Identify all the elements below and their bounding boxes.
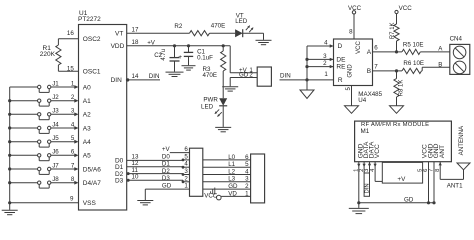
svg-text:5: 5 bbox=[184, 153, 188, 160]
svg-text:L3: L3 bbox=[228, 176, 235, 183]
svg-text:R6 10E: R6 10E bbox=[403, 60, 424, 67]
svg-text:1: 1 bbox=[184, 183, 188, 190]
svg-text:7: 7 bbox=[71, 162, 75, 169]
svg-text:10: 10 bbox=[132, 174, 139, 181]
svg-text:A: A bbox=[367, 49, 372, 56]
svg-text:6: 6 bbox=[184, 146, 188, 153]
svg-text:B: B bbox=[438, 62, 442, 69]
svg-text:D4/A7: D4/A7 bbox=[83, 180, 101, 187]
svg-text:2: 2 bbox=[249, 72, 253, 79]
svg-text:DIN: DIN bbox=[149, 73, 160, 80]
svg-text:J1: J1 bbox=[52, 80, 59, 87]
svg-text:VCC: VCC bbox=[356, 41, 362, 54]
svg-text:A4: A4 bbox=[83, 139, 91, 146]
svg-text:15: 15 bbox=[67, 65, 74, 72]
svg-text:6: 6 bbox=[245, 154, 249, 161]
svg-text:5: 5 bbox=[71, 135, 75, 142]
svg-text:+V: +V bbox=[147, 39, 156, 46]
svg-text:A2: A2 bbox=[83, 112, 91, 119]
svg-text:4: 4 bbox=[324, 40, 328, 47]
svg-text:GD: GD bbox=[239, 72, 249, 79]
svg-text:ANT1: ANT1 bbox=[447, 182, 463, 189]
svg-text:PT2272: PT2272 bbox=[78, 16, 101, 23]
svg-text:J2: J2 bbox=[52, 94, 59, 101]
svg-text:+V: +V bbox=[397, 176, 406, 183]
svg-text:LED: LED bbox=[235, 18, 248, 25]
svg-text:RF AM/FM Rx MODULE: RF AM/FM Rx MODULE bbox=[361, 122, 429, 128]
svg-text:L1: L1 bbox=[228, 161, 235, 168]
svg-text:2: 2 bbox=[71, 94, 75, 101]
svg-text:8: 8 bbox=[71, 176, 75, 183]
svg-text:3: 3 bbox=[245, 176, 249, 183]
svg-text:+: + bbox=[178, 54, 182, 61]
svg-text:D1: D1 bbox=[162, 161, 170, 168]
svg-text:2: 2 bbox=[245, 183, 249, 190]
svg-text:D: D bbox=[338, 43, 343, 50]
svg-text:LED: LED bbox=[201, 103, 214, 110]
svg-text:J5: J5 bbox=[52, 135, 59, 142]
svg-text:R2: R2 bbox=[174, 23, 182, 30]
svg-text:5: 5 bbox=[245, 161, 249, 168]
svg-text:B: B bbox=[367, 68, 371, 75]
svg-text:RE: RE bbox=[336, 64, 346, 71]
svg-text:A5: A5 bbox=[83, 153, 91, 160]
svg-text:L0: L0 bbox=[228, 154, 235, 161]
svg-text:DIN: DIN bbox=[364, 183, 370, 193]
svg-text:R7 1K: R7 1K bbox=[390, 22, 396, 39]
svg-text:J7: J7 bbox=[52, 162, 59, 169]
svg-text:L2: L2 bbox=[228, 168, 235, 175]
svg-text:D2: D2 bbox=[162, 168, 170, 175]
svg-text:16: 16 bbox=[67, 30, 74, 37]
svg-text:R: R bbox=[338, 77, 343, 84]
svg-text:6: 6 bbox=[71, 149, 75, 156]
svg-text:1: 1 bbox=[71, 80, 75, 87]
svg-text:M1: M1 bbox=[361, 128, 370, 135]
svg-text:A1: A1 bbox=[83, 98, 91, 105]
svg-text:3: 3 bbox=[184, 168, 188, 175]
svg-text:D3: D3 bbox=[115, 178, 124, 185]
svg-text:GD: GD bbox=[404, 197, 414, 204]
svg-text:470E: 470E bbox=[211, 23, 225, 30]
svg-text:470E: 470E bbox=[203, 72, 217, 79]
svg-text:4.7u: 4.7u bbox=[161, 49, 167, 61]
svg-text:J3: J3 bbox=[52, 108, 59, 115]
svg-text:OSC2: OSC2 bbox=[83, 36, 101, 43]
svg-text:4: 4 bbox=[71, 121, 75, 128]
svg-text:VCC: VCC bbox=[204, 193, 218, 200]
svg-text:VD: VD bbox=[228, 190, 237, 197]
svg-text:1: 1 bbox=[324, 71, 328, 78]
svg-text:18: 18 bbox=[132, 39, 139, 46]
svg-text:+V: +V bbox=[162, 146, 171, 153]
svg-text:CN4: CN4 bbox=[450, 35, 463, 42]
svg-text:D3: D3 bbox=[162, 175, 170, 182]
svg-text:OSC1: OSC1 bbox=[83, 69, 101, 76]
svg-text:9: 9 bbox=[70, 196, 74, 203]
svg-text:J4: J4 bbox=[52, 121, 59, 128]
svg-text:ANT: ANT bbox=[439, 145, 446, 158]
svg-text:2: 2 bbox=[184, 175, 188, 182]
svg-text:220K: 220K bbox=[40, 51, 56, 58]
svg-text:VCC: VCC bbox=[348, 5, 362, 12]
svg-text:U4: U4 bbox=[358, 97, 366, 104]
svg-text:3: 3 bbox=[71, 108, 75, 115]
svg-text:17: 17 bbox=[132, 26, 139, 33]
svg-text:DE: DE bbox=[336, 56, 346, 63]
svg-text:J8: J8 bbox=[52, 176, 59, 183]
svg-text:VCC: VCC bbox=[374, 144, 381, 158]
svg-text:7: 7 bbox=[374, 64, 378, 71]
svg-text:DIN: DIN bbox=[280, 73, 291, 80]
svg-text:6: 6 bbox=[374, 45, 378, 52]
svg-text:4: 4 bbox=[184, 161, 188, 168]
svg-text:0.1uF: 0.1uF bbox=[197, 54, 213, 61]
svg-text:2: 2 bbox=[323, 60, 327, 67]
svg-text:GD: GD bbox=[228, 183, 238, 190]
svg-text:VCC: VCC bbox=[399, 5, 413, 12]
svg-text:GD: GD bbox=[162, 183, 172, 190]
svg-text:D0: D0 bbox=[162, 153, 170, 160]
svg-text:VT: VT bbox=[115, 30, 123, 37]
svg-text:A3: A3 bbox=[83, 125, 91, 132]
svg-text:R8 1K: R8 1K bbox=[399, 80, 405, 97]
svg-text:R5 10E: R5 10E bbox=[403, 42, 424, 49]
svg-text:DIN: DIN bbox=[111, 77, 123, 84]
svg-text:14: 14 bbox=[132, 73, 139, 80]
svg-text:8: 8 bbox=[349, 28, 353, 35]
svg-text:A0: A0 bbox=[83, 84, 91, 91]
svg-text:VDD: VDD bbox=[111, 43, 125, 50]
svg-text:ANTENNA: ANTENNA bbox=[458, 125, 465, 155]
svg-text:4: 4 bbox=[245, 168, 249, 175]
svg-text:D5/A6: D5/A6 bbox=[83, 166, 101, 173]
svg-text:GND: GND bbox=[347, 64, 353, 78]
svg-text:1: 1 bbox=[245, 190, 249, 197]
svg-text:VSS: VSS bbox=[83, 200, 97, 207]
svg-text:J6: J6 bbox=[52, 149, 59, 156]
